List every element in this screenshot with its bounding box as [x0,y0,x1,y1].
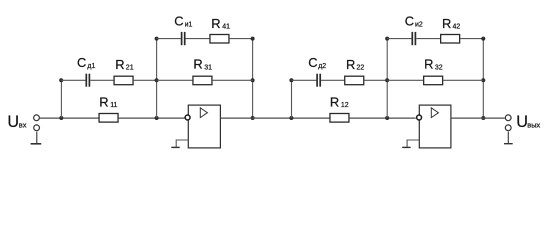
label Uвых [516,113,540,131]
label R11 [99,94,117,109]
wire: Си1 to R41 [186,38,211,40]
node: right bus 2 / top branch [481,37,485,41]
node: left bus / top branch [155,37,159,41]
label Си2 [405,14,423,29]
ground (op-amp U2) [402,146,410,148]
wire: input terminal to R11 [40,117,99,119]
svg-text:22: 22 [357,65,365,72]
output terminal Uвых upper [505,115,511,121]
wire: op-amp U1 non-inverting input to ground [176,140,188,147]
wire: R11 to op-amp U1 inverting input [119,117,185,119]
svg-text:U: U [7,113,19,131]
resistor R12 [330,114,349,123]
wire: right feedback bus stage 2 [482,39,484,119]
input terminal Uвх upper [34,115,40,121]
wire: Сд1 branch vertical riser [60,80,62,118]
svg-text:32: 32 [435,64,443,71]
svg-text:R: R [99,94,108,109]
node D: right bus 2 / output line [481,116,485,120]
wire: R31 to right bus [213,79,253,81]
label Сд1 [77,55,95,70]
wire: left feedback bus stage 2 [386,39,388,119]
resistor R32 [424,76,443,85]
label R21 [115,57,133,72]
wire: Си2 to R42 [416,38,441,40]
svg-text:12: 12 [341,102,349,109]
svg-text:вых: вых [527,121,540,130]
label R32 [424,57,443,72]
wire: node to Си2 [387,38,411,40]
input terminal Uвх lower [34,125,40,131]
node: Сд1 branch corner [59,78,63,82]
capacitor Сд1 [86,74,89,87]
wire: branch corner to Сд2 [292,79,317,81]
label R42 [442,16,460,31]
svg-text:C: C [308,55,317,70]
node: left bus 2 / top branch [385,37,389,41]
node: left bus 2 / R32 branch [385,78,389,82]
node: Сд2 branch corner [289,78,293,82]
wire: branch corner to Сд1 [61,79,86,81]
svg-text:R: R [115,57,124,72]
wire: R41 to node B [230,38,253,40]
output terminal Uвых lower [505,125,511,131]
svg-text:R: R [211,16,220,31]
resistor R42 [441,35,460,44]
label R41 [211,16,230,31]
node C: main line / left feedback bus junction stage 2 [385,116,389,120]
label Сд2 [308,55,326,70]
capacitor Си2 [412,32,415,45]
label Uвх [7,113,26,131]
label R31 [193,57,212,72]
svg-text:и1: и1 [185,22,193,29]
label R22 [346,57,364,72]
svg-text:вх: вх [19,121,27,130]
svg-text:42: 42 [453,24,461,31]
resistor R11 [99,114,118,123]
wire: R12 to op-amp U2 inverting input [350,117,416,119]
node A: main line / left feedback bus junction [155,116,159,120]
svg-text:11: 11 [110,102,117,109]
wire: Сд2 to R22 [321,79,345,81]
node: right bus / top branch [251,37,255,41]
op-amp U2 [417,105,451,148]
resistor R21 [114,76,133,85]
op-amp U1 [185,105,220,148]
ground (output) [504,132,513,144]
wire: right feedback bus stage 1 [252,39,254,119]
wire: left feedback bus stage 1 [156,39,158,119]
svg-text:R: R [424,57,433,72]
resistor R22 [345,76,364,85]
label R12 [330,94,349,109]
wire: op-amp U2 output to output terminal [451,117,505,119]
svg-text:U: U [516,113,528,131]
svg-text:д1: д1 [87,63,95,70]
svg-text:R: R [193,57,202,72]
node: left bus / R31 branch [155,78,159,82]
wire: Сд2 branch vertical riser [291,80,293,118]
wire: node C to R32 [387,79,424,81]
wire: node A to R31 [157,79,193,81]
wire: node to Си1 [157,38,181,40]
svg-text:д2: д2 [318,63,326,70]
node B: right bus / output line [251,116,255,120]
svg-text:R: R [330,94,339,109]
svg-text:и2: и2 [415,22,423,29]
node: right bus / R31 branch [251,78,255,82]
wire: R42 to node D [460,38,483,40]
wire: op-amp U1 output to R12 [220,117,330,119]
resistor R31 [193,76,212,85]
capacitor Си1 [182,32,185,45]
svg-text:C: C [405,14,414,29]
wire: R32 to right bus 2 [443,79,483,81]
ground (op-amp U1) [171,146,179,148]
label Си1 [174,14,192,29]
svg-text:C: C [174,14,183,29]
svg-text:R: R [346,57,355,72]
capacitor Сд2 [317,74,320,87]
wire: R22 to node C [364,79,387,81]
svg-text:C: C [77,55,86,70]
svg-text:21: 21 [126,65,134,72]
node: junction output line / Сд2 branch [289,116,293,120]
svg-text:R: R [442,16,451,31]
ground (input) [31,132,42,144]
svg-text:31: 31 [204,64,212,71]
resistor R41 [210,35,229,44]
svg-text:41: 41 [222,24,230,31]
wire: R21 to node A [134,79,157,81]
node: junction input line / Сд1 branch [59,116,63,120]
node: right bus 2 / R32 branch [481,78,485,82]
wire: Сд1 to R21 [90,79,114,81]
wire: op-amp U2 non-inverting input to ground [407,140,419,147]
